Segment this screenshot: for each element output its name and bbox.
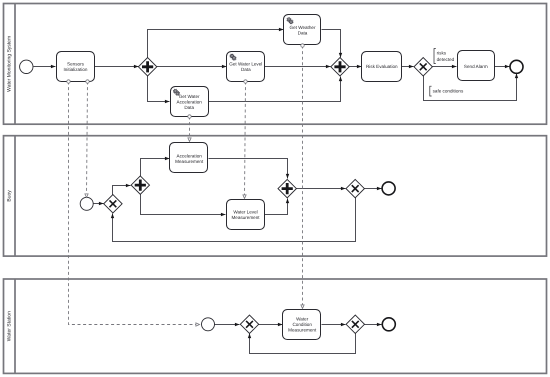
svg-text:Buoy: Buoy — [7, 190, 13, 202]
svg-text:Acceleration: Acceleration — [177, 99, 203, 104]
svg-text:Water Monitoring System: Water Monitoring System — [7, 36, 13, 92]
svg-text:Get Weather: Get Weather — [290, 25, 316, 30]
svg-text:detected: detected — [437, 57, 455, 62]
svg-text:Water: Water — [296, 317, 309, 322]
svg-text:Measurement: Measurement — [175, 159, 204, 164]
svg-text:Data: Data — [241, 67, 251, 72]
svg-text:Water Level: Water Level — [233, 210, 257, 215]
svg-text:Acceleration: Acceleration — [177, 153, 203, 158]
svg-text:Condition: Condition — [292, 322, 312, 327]
svg-text:risks: risks — [437, 51, 447, 56]
svg-text:Risk Evaluation: Risk Evaluation — [366, 64, 398, 69]
svg-text:Data: Data — [184, 105, 194, 110]
svg-text:Measurement: Measurement — [288, 328, 317, 333]
svg-text:Initialization: Initialization — [63, 67, 87, 72]
svg-text:Get Water Level: Get Water Level — [229, 61, 262, 66]
svg-text:Water Station: Water Station — [7, 311, 13, 341]
svg-text:Send Alarm: Send Alarm — [464, 64, 488, 69]
svg-text:Data: Data — [298, 31, 308, 36]
svg-text:Sensors: Sensors — [67, 61, 85, 66]
svg-text:safe conditions: safe conditions — [433, 89, 464, 94]
svg-text:Measurement: Measurement — [231, 215, 260, 220]
svg-text:Get Water: Get Water — [179, 94, 200, 99]
